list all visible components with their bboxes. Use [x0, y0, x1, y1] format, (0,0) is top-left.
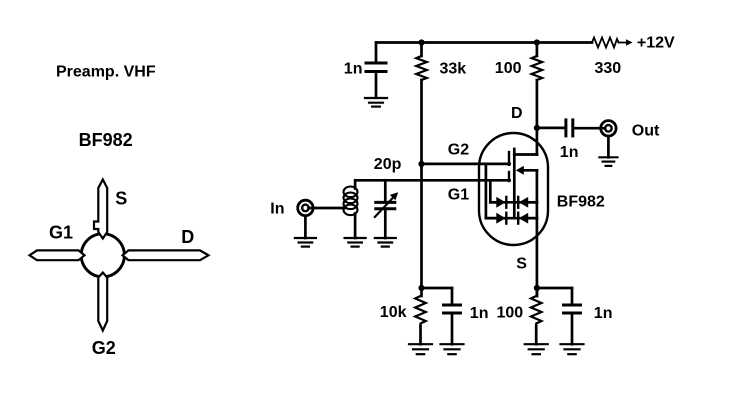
ground (under L1) — [345, 238, 366, 247]
svg-text:Preamp. VHF: Preamp. VHF — [56, 64, 156, 81]
svg-text:+12V: +12V — [637, 35, 675, 52]
U1 gate bar G2 — [508, 152, 510, 165]
wire rail to R2 — [536, 43, 539, 57]
U1 diode pair row 2 (G2) — [486, 213, 537, 224]
ground (under R5) — [525, 344, 548, 354]
resistor R3 330 (horizontal) — [592, 38, 619, 48]
wire coil top to G1 wire — [354, 180, 357, 188]
junction rail/R2 — [534, 39, 540, 45]
lead G2 (pinout) — [98, 273, 107, 331]
resistor R2 100 (drain) — [532, 56, 543, 80]
trimmer arrow — [375, 196, 395, 217]
resistor R1 33k — [416, 56, 427, 80]
wire junction to R4 — [420, 288, 423, 296]
resistor R4 10k — [415, 296, 426, 326]
U1 G2 protection drop wire — [486, 164, 537, 218]
ground (under C4) — [561, 344, 584, 354]
svg-text:33k: 33k — [440, 60, 467, 77]
lead G1 (pinout) — [30, 250, 85, 260]
wire R5 to ground — [535, 326, 538, 344]
U1 source line down — [536, 170, 539, 296]
svg-text:100: 100 — [497, 305, 524, 322]
wire G1 (from tuned circuit) — [356, 179, 510, 182]
wire junction to C4 — [537, 287, 572, 290]
lead D (pinout) — [123, 250, 209, 260]
arrowhead +12V — [626, 39, 633, 46]
svg-text:1n: 1n — [594, 305, 613, 322]
wire rail to C1 — [375, 43, 378, 63]
transistor U1 BF982 body (stadium outline) — [479, 133, 548, 245]
wire R2 to drain of U1 — [536, 80, 539, 155]
svg-text:20p: 20p — [374, 156, 402, 173]
svg-text:S: S — [115, 189, 127, 209]
svg-text:BF982: BF982 — [557, 193, 605, 210]
svg-text:10k: 10k — [380, 304, 407, 321]
wire R1 down to bottom junction (bias divider line) — [420, 80, 423, 288]
svg-text:1n: 1n — [344, 60, 363, 77]
junction source/R5 — [534, 285, 540, 291]
U1 gate bar G1 — [508, 172, 510, 181]
transistor package body circle (pinout view) — [81, 234, 124, 277]
wire D to C2 — [537, 127, 565, 130]
U1 diode pair row 1 (G1) — [490, 197, 537, 208]
resistor R5 100 (source) — [531, 296, 542, 326]
lead S (pinout) — [94, 180, 107, 239]
svg-text:330: 330 — [595, 60, 622, 77]
junction node D — [534, 125, 540, 131]
svg-text:G1: G1 — [49, 222, 73, 242]
ground (under R4) — [409, 344, 432, 354]
wire C1 to ground — [375, 72, 378, 98]
wire to +12V arrow — [619, 42, 627, 44]
svg-text:D: D — [181, 227, 194, 247]
capacitor C1 1n (top left) — [366, 63, 386, 72]
wire In to coil tap — [309, 207, 345, 210]
svg-text:1n: 1n — [470, 305, 489, 322]
ground (under In connector) — [295, 238, 316, 247]
junction G2 bias — [418, 161, 424, 167]
wire G1 wire to trimmer — [384, 180, 387, 201]
svg-text:G2: G2 — [448, 142, 469, 159]
U1 drain connection — [514, 153, 537, 156]
svg-text:G2: G2 — [92, 338, 116, 358]
svg-text:Out: Out — [632, 122, 660, 139]
svg-text:In: In — [270, 201, 284, 218]
junction rail/R1 — [418, 39, 424, 45]
svg-text:BF982: BF982 — [79, 130, 133, 150]
capacitor C3 1n (bottom left) — [444, 305, 461, 313]
U1 substrate arrow — [516, 166, 524, 175]
wire G2 — [422, 163, 510, 166]
wire trimmer to ground — [384, 209, 387, 238]
capacitor C4 1n (bottom right) — [564, 305, 581, 313]
inductor L1 — [344, 187, 358, 216]
U1 G1 protection drop wire — [490, 180, 537, 202]
junction bias/10k — [418, 285, 424, 291]
capacitor C2 1n (output coupling) — [566, 120, 573, 136]
wire Out connector to ground — [607, 137, 610, 158]
wire R4 to ground — [419, 326, 422, 344]
connector J2 Out — [601, 121, 616, 136]
svg-text:D: D — [511, 105, 523, 122]
svg-text:100: 100 — [495, 60, 522, 77]
wire C3 to ground — [451, 313, 454, 344]
U1 channel bar — [513, 149, 516, 218]
variable capacitor CV 20p — [376, 202, 395, 208]
ground (under trimmer) — [375, 238, 396, 247]
wire C2 to Out connector — [574, 127, 605, 130]
svg-text:G1: G1 — [448, 187, 469, 204]
wire rail to R1 — [420, 43, 423, 57]
wire junction to C3 — [422, 287, 453, 290]
wire C4 top lead — [571, 288, 574, 305]
svg-text:S: S — [516, 256, 527, 273]
ground (under C3) — [441, 344, 464, 354]
svg-text:1n: 1n — [560, 144, 579, 161]
wire junction to R5 — [536, 288, 539, 296]
wire C3 top lead — [451, 288, 454, 305]
wire In connector to ground — [304, 216, 307, 238]
ground (under C1) — [365, 98, 387, 107]
wire C4 to ground — [571, 313, 574, 344]
connector J1 In — [298, 200, 313, 215]
wire coil bottom to ground — [354, 214, 357, 239]
wire top supply rail — [376, 41, 592, 44]
ground (under Out connector) — [599, 157, 617, 166]
